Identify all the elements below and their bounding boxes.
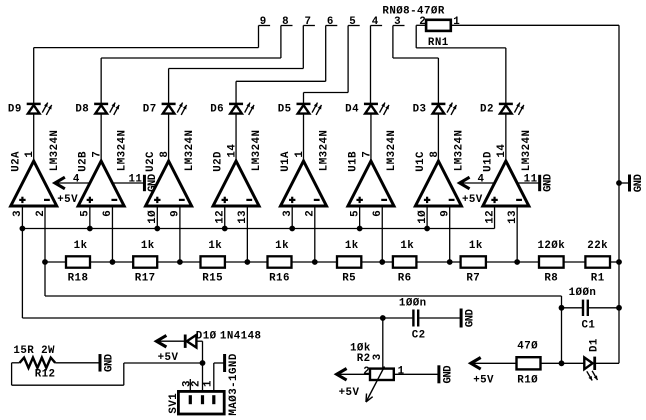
svg-text:LM324N: LM324N (184, 130, 196, 172)
svg-text:47Ø: 47Ø (517, 340, 538, 352)
svg-text:GND: GND (465, 309, 477, 328)
svg-text:C1: C1 (582, 320, 596, 332)
svg-text:R7: R7 (466, 272, 480, 284)
svg-text:6: 6 (327, 16, 334, 28)
svg-text:11: 11 (128, 173, 142, 185)
svg-text:4: 4 (372, 16, 379, 28)
svg-text:C2: C2 (412, 329, 426, 341)
svg-text:D6: D6 (210, 104, 224, 116)
svg-text:RN1: RN1 (428, 37, 449, 49)
svg-text:+5V: +5V (462, 194, 483, 206)
svg-text:4: 4 (478, 173, 485, 185)
svg-text:LM324N: LM324N (49, 130, 61, 172)
svg-text:LM324N: LM324N (521, 130, 533, 172)
svg-text:1k: 1k (400, 240, 414, 252)
svg-text:3: 3 (394, 16, 401, 28)
svg-text:D8: D8 (75, 104, 89, 116)
svg-text:D7: D7 (143, 104, 157, 116)
svg-text:2: 2 (363, 366, 370, 378)
svg-text:GND: GND (104, 353, 116, 372)
svg-text:3: 3 (12, 210, 24, 217)
svg-text:1k: 1k (345, 240, 359, 252)
svg-text:R8: R8 (544, 272, 558, 284)
svg-text:GND: GND (442, 365, 454, 384)
svg-text:LM324N: LM324N (386, 130, 398, 172)
svg-text:+5V: +5V (57, 194, 78, 206)
svg-text:11: 11 (524, 173, 538, 185)
svg-text:R2: R2 (357, 353, 371, 365)
svg-text:D1Ø: D1Ø (196, 330, 217, 342)
svg-text:U2B: U2B (78, 151, 90, 172)
svg-text:GND: GND (542, 173, 554, 192)
svg-text:GND: GND (147, 173, 159, 192)
svg-text:1: 1 (24, 151, 36, 158)
svg-text:D2: D2 (480, 104, 494, 116)
svg-text:2: 2 (305, 210, 317, 217)
svg-text:14: 14 (496, 144, 508, 158)
svg-text:1N4148: 1N4148 (220, 330, 262, 342)
svg-text:D1: D1 (588, 338, 600, 352)
svg-text:LM324N: LM324N (454, 130, 466, 172)
svg-text:LM324N: LM324N (319, 130, 331, 172)
svg-text:U1B: U1B (348, 151, 360, 172)
svg-text:LM324N: LM324N (116, 130, 128, 172)
svg-text:D9: D9 (8, 104, 22, 116)
svg-text:GND: GND (633, 174, 645, 193)
svg-text:U2A: U2A (10, 151, 22, 172)
svg-text:12Øk: 12Øk (537, 240, 565, 252)
svg-text:1: 1 (294, 151, 306, 158)
svg-text:1Ø: 1Ø (147, 210, 159, 224)
svg-text:U1A: U1A (280, 151, 292, 172)
svg-text:9: 9 (260, 16, 267, 28)
svg-text:1Ø: 1Ø (417, 210, 429, 224)
svg-text:4: 4 (73, 173, 80, 185)
svg-text:1k: 1k (275, 240, 289, 252)
svg-text:7: 7 (305, 16, 312, 28)
svg-text:R1Ø: R1Ø (517, 374, 538, 386)
svg-text:U2D: U2D (213, 151, 225, 172)
svg-text:R17: R17 (135, 272, 156, 284)
svg-text:3: 3 (372, 353, 384, 360)
svg-text:2: 2 (35, 210, 47, 217)
svg-text:15R 2W: 15R 2W (13, 345, 55, 357)
svg-text:9: 9 (170, 210, 182, 217)
svg-text:7: 7 (92, 151, 104, 158)
svg-text:14: 14 (226, 144, 238, 158)
svg-text:U1C: U1C (415, 151, 427, 172)
svg-text:5: 5 (349, 16, 356, 28)
svg-text:U2C: U2C (145, 151, 157, 172)
svg-text:LM324N: LM324N (251, 130, 263, 172)
svg-text:+5V: +5V (158, 352, 179, 364)
svg-text:MAØ3-1GND: MAØ3-1GND (228, 353, 240, 415)
svg-text:2: 2 (419, 16, 426, 28)
svg-text:5: 5 (349, 210, 361, 217)
svg-text:D3: D3 (413, 104, 427, 116)
svg-text:1: 1 (202, 380, 214, 387)
svg-text:13: 13 (237, 210, 249, 224)
svg-text:+5V: +5V (339, 387, 360, 399)
svg-text:3: 3 (282, 210, 294, 217)
svg-text:1ØØn: 1ØØn (399, 297, 427, 309)
svg-text:1k: 1k (469, 240, 483, 252)
svg-text:R12: R12 (35, 368, 56, 380)
svg-text:RNØ8-47ØR: RNØ8-47ØR (382, 6, 444, 18)
svg-text:6: 6 (372, 210, 384, 217)
svg-text:R16: R16 (269, 272, 290, 284)
svg-text:9: 9 (440, 210, 452, 217)
svg-text:D4: D4 (345, 104, 359, 116)
svg-text:8: 8 (429, 151, 441, 158)
svg-text:1k: 1k (74, 240, 88, 252)
svg-text:SV1: SV1 (168, 393, 180, 414)
svg-text:1ØØn: 1ØØn (569, 287, 597, 299)
svg-text:7: 7 (361, 151, 373, 158)
svg-text:12: 12 (484, 210, 496, 224)
svg-text:1: 1 (453, 16, 460, 28)
svg-text:R18: R18 (68, 272, 89, 284)
svg-text:6: 6 (102, 210, 114, 217)
svg-text:D5: D5 (278, 104, 292, 116)
svg-text:12: 12 (215, 210, 227, 224)
svg-text:R5: R5 (342, 272, 356, 284)
svg-text:R15: R15 (202, 272, 223, 284)
svg-text:R6: R6 (398, 272, 412, 284)
svg-text:1k: 1k (141, 240, 155, 252)
svg-text:13: 13 (507, 210, 519, 224)
svg-text:R1: R1 (591, 272, 605, 284)
svg-text:5: 5 (80, 210, 92, 217)
svg-text:8: 8 (282, 16, 289, 28)
svg-text:U1D: U1D (482, 151, 494, 172)
svg-text:2: 2 (190, 380, 202, 387)
svg-text:1k: 1k (208, 240, 222, 252)
svg-text:1: 1 (398, 365, 405, 377)
svg-text:+5V: +5V (473, 374, 494, 386)
svg-text:22k: 22k (587, 240, 608, 252)
svg-text:8: 8 (159, 151, 171, 158)
